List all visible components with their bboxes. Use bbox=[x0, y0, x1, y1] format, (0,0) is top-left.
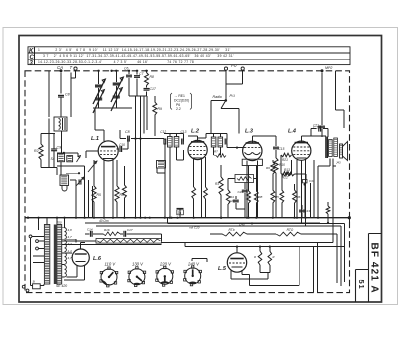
capacitor C8a bbox=[58, 93, 70, 98]
resistor R11 bbox=[247, 166, 251, 219]
transformer heater windings bbox=[62, 228, 66, 277]
transformer secondary bbox=[57, 225, 62, 285]
wire L2 pins down bbox=[192, 157, 208, 219]
resistor R12 bbox=[254, 166, 262, 219]
svg-text:C43: C43 bbox=[305, 209, 311, 213]
tube L3 bbox=[243, 129, 262, 161]
wire C8 to coil bbox=[60, 98, 62, 117]
svg-text:T: T bbox=[70, 65, 73, 70]
barretter resistor bbox=[62, 234, 161, 245]
svg-text:C40: C40 bbox=[239, 222, 245, 226]
resistor R8 bbox=[145, 71, 154, 86]
wire L5 top bbox=[236, 247, 238, 253]
terminal T2 bbox=[71, 67, 77, 78]
dial scale row1 numbers bbox=[38, 48, 231, 52]
wire L1 plate top bbox=[103, 130, 105, 141]
capacitor C15 bbox=[273, 147, 285, 158]
wire osc out bbox=[70, 180, 77, 219]
svg-text:R3: R3 bbox=[215, 182, 219, 186]
wire antenna CA down bbox=[60, 72, 62, 93]
svg-text:C9: C9 bbox=[57, 146, 62, 150]
variable capacitor C1 bbox=[93, 71, 106, 108]
svg-text:K: K bbox=[29, 49, 34, 55]
chassis dashed boundary bbox=[25, 71, 350, 293]
resistor R2 bbox=[34, 144, 57, 168]
svg-text:CA: CA bbox=[57, 65, 63, 70]
label 40ohm bbox=[99, 219, 109, 223]
capacitor C26 bbox=[238, 183, 248, 218]
resistor R4 bbox=[226, 184, 234, 218]
label C20 bbox=[189, 226, 200, 230]
svg-text:R9: R9 bbox=[266, 166, 270, 170]
resistor R16v bbox=[293, 184, 301, 219]
terminal MP2 bbox=[321, 66, 333, 72]
svg-text:DC2(D20): DC2(D20) bbox=[174, 99, 189, 103]
svg-text:Radio: Radio bbox=[213, 95, 222, 99]
wire transformer down bbox=[318, 159, 336, 218]
wire heater drops bbox=[314, 242, 318, 292]
svg-text:BF 421 A: BF 421 A bbox=[368, 243, 379, 294]
wire right verticals bbox=[305, 160, 314, 218]
resistor R9b bbox=[122, 166, 126, 219]
tube L2 bbox=[188, 129, 207, 160]
capacitor C7 bbox=[134, 71, 143, 96]
svg-text:C.19: C.19 bbox=[313, 126, 320, 130]
capacitor C17h bbox=[120, 228, 161, 237]
svg-text:PU: PU bbox=[231, 63, 237, 68]
svg-text:R8: R8 bbox=[259, 195, 263, 199]
wire transformer tops bbox=[39, 218, 65, 230]
oscillator coil S5 bbox=[60, 175, 69, 191]
svg-text:J43: J43 bbox=[336, 161, 341, 165]
tube L6 bbox=[72, 249, 102, 266]
variable capacitor C4 bbox=[111, 88, 123, 112]
output transformer bbox=[315, 136, 337, 158]
resistor R18 bbox=[326, 202, 330, 224]
svg-text:4,8: 4,8 bbox=[68, 228, 73, 232]
svg-text:C17: C17 bbox=[150, 87, 156, 91]
fuse bbox=[31, 280, 45, 289]
wire L4 pins down bbox=[296, 159, 307, 226]
bus rail B4 bbox=[96, 226, 341, 286]
svg-text:L.6: L.6 bbox=[93, 256, 102, 262]
resistor RTO bbox=[276, 228, 337, 283]
svg-text:L.5: L.5 bbox=[218, 266, 227, 272]
bus rail B7 bbox=[185, 242, 345, 247]
terminal CA bbox=[57, 65, 73, 72]
capacitor C33 bbox=[303, 174, 315, 186]
svg-text:51: 51 bbox=[357, 280, 366, 290]
svg-text:R: R bbox=[254, 255, 256, 259]
IF transformer T2 bbox=[211, 134, 227, 158]
resistor L5 cathode 2 bbox=[268, 247, 275, 273]
resistor R5 bbox=[92, 160, 101, 219]
terminal PU left bbox=[224, 63, 236, 70]
wire speaker top bbox=[335, 71, 344, 128]
svg-text:Si: Si bbox=[33, 280, 36, 284]
svg-text:R13: R13 bbox=[284, 168, 290, 172]
svg-text:R2: R2 bbox=[34, 149, 39, 153]
svg-text:mit C20: mit C20 bbox=[189, 226, 200, 230]
svg-text:SE 420: SE 420 bbox=[56, 284, 67, 288]
svg-text:C6: C6 bbox=[124, 67, 128, 71]
wire osc coils bbox=[57, 131, 80, 175]
dial scale table bbox=[28, 47, 350, 67]
svg-text:C27: C27 bbox=[229, 199, 235, 203]
wire L2 plate up bbox=[198, 134, 213, 142]
wire mains left bbox=[30, 238, 32, 285]
wire T2 to L3 bbox=[227, 143, 244, 148]
box below L3 bbox=[242, 159, 262, 165]
feedback resistor box bbox=[228, 175, 256, 185]
resistor R22 bbox=[281, 160, 292, 180]
svg-text:3 7 2' 4 5 6 9 11 12' 17-: 3 7 2' 4 5 6 9 11 12' 17-31-34-37-39-41-… bbox=[43, 54, 234, 58]
svg-text:130 V: 130 V bbox=[132, 262, 144, 267]
svg-text:L.3: L.3 bbox=[245, 129, 253, 135]
svg-text:L.2: L.2 bbox=[191, 129, 199, 135]
svg-text:C8: C8 bbox=[125, 130, 130, 134]
bus rail B6 bbox=[161, 166, 333, 242]
svg-text:RTO: RTO bbox=[287, 228, 294, 232]
bus rail B3 bbox=[85, 218, 349, 223]
svg-text:C26: C26 bbox=[238, 190, 244, 194]
capacitor C21 bbox=[311, 124, 328, 138]
wire antenna aux2 bbox=[48, 119, 50, 168]
svg-text:R5: R5 bbox=[97, 193, 101, 197]
svg-text:L.1: L.1 bbox=[91, 136, 99, 142]
terminal PU right bbox=[241, 67, 244, 70]
svg-text:1,4: 1,4 bbox=[68, 249, 73, 253]
switch radio-pu bbox=[211, 70, 243, 133]
svg-text:4,7: 4,7 bbox=[68, 235, 73, 239]
svg-text:2.2: 2.2 bbox=[176, 107, 181, 111]
variable capacitor C2 bbox=[111, 71, 124, 108]
svg-text:R: R bbox=[273, 255, 275, 259]
svg-text:3: 3 bbox=[30, 60, 34, 66]
resistor R15v bbox=[275, 184, 284, 218]
svg-text:P.U: P.U bbox=[230, 94, 236, 98]
label 700 bbox=[57, 221, 62, 225]
transformer primary bbox=[44, 225, 49, 285]
svg-text:R6: R6 bbox=[297, 195, 301, 199]
bus rail B1 bbox=[25, 216, 351, 219]
tube L5 bbox=[218, 253, 247, 272]
capacitor C9 bbox=[51, 134, 61, 168]
capacitor C6 bbox=[124, 67, 132, 97]
wire gang top dots bbox=[97, 70, 147, 72]
svg-text:C10: C10 bbox=[119, 143, 125, 147]
svg-text:240 V: 240 V bbox=[187, 262, 200, 267]
capacitor C43 bbox=[299, 205, 310, 218]
mixer coil box bbox=[157, 161, 166, 174]
loudspeaker bbox=[336, 142, 348, 165]
svg-text:14-12-23-26-30-33-28-53-0-1-2-: 14-12-23-26-30-33-28-53-0-1-2-3-4' 4 7 3… bbox=[38, 60, 194, 64]
title block sheet 51 bbox=[356, 270, 369, 303]
svg-text:R9: R9 bbox=[158, 107, 162, 111]
capacitor C17 bbox=[144, 86, 156, 97]
wire L5 loop bbox=[231, 247, 299, 286]
label SE420 bbox=[56, 284, 67, 288]
capacitor C27 bbox=[229, 196, 245, 209]
mains terminals bbox=[22, 285, 29, 292]
dial scale row2 numbers bbox=[43, 54, 234, 58]
bus rail B2 bbox=[168, 218, 345, 282]
resistor R10 bbox=[274, 158, 285, 218]
wire mixer verticals bbox=[129, 96, 147, 219]
wire gang bottom bbox=[93, 108, 132, 141]
resistor R14 bbox=[266, 160, 275, 219]
svg-text:220 V: 220 V bbox=[159, 262, 172, 267]
knob 110V bbox=[100, 262, 118, 287]
capacitor C14h bbox=[85, 228, 93, 237]
wire L3 plate up bbox=[252, 136, 276, 146]
tube L1 bbox=[91, 136, 118, 161]
drawing border frame bbox=[19, 36, 382, 303]
svg-text:110 V: 110 V bbox=[105, 262, 117, 267]
wire T1 to L2 bbox=[177, 134, 198, 161]
svg-text:1 2 3' 4 5' 6 7: 1 2 3' 4 5' 6 7 8 9 10' 11 12 13' 14-15-… bbox=[38, 48, 231, 52]
resistor L5 cathode 1 bbox=[254, 247, 262, 273]
title block BF421A bbox=[368, 234, 381, 303]
note text bbox=[171, 93, 192, 111]
svg-text:7,4: 7,4 bbox=[68, 242, 73, 246]
svg-text:2µ: 2µ bbox=[178, 211, 182, 215]
svg-text:4,7: 4,7 bbox=[68, 256, 73, 260]
bus junction dots bbox=[27, 217, 319, 219]
wire osc verticals bbox=[57, 166, 92, 218]
svg-text:R7: R7 bbox=[214, 150, 218, 154]
svg-text:R5: R5 bbox=[275, 195, 279, 199]
svg-text:C8: C8 bbox=[65, 93, 70, 97]
wire L6 pins bbox=[64, 266, 85, 281]
variable capacitor C3 bbox=[93, 90, 105, 114]
svg-text:L.4: L.4 bbox=[288, 129, 296, 135]
svg-text:R16: R16 bbox=[104, 228, 110, 232]
svg-text:R21: R21 bbox=[282, 158, 288, 162]
svg-text:C7: C7 bbox=[139, 72, 143, 76]
wire L1 cathode down bbox=[103, 160, 114, 219]
knob 220V bbox=[156, 262, 174, 287]
wire coil to R2 bbox=[41, 131, 61, 144]
trimmer arrow osc bbox=[76, 156, 84, 187]
wire T down bbox=[70, 72, 72, 117]
wire L6 top bbox=[81, 242, 85, 249]
svg-text:→ RE1: → RE1 bbox=[174, 94, 185, 98]
oscillator coil S4 bbox=[51, 152, 79, 162]
label C40 bbox=[239, 222, 253, 226]
svg-text:S4: S4 bbox=[51, 157, 55, 161]
svg-text:C17: C17 bbox=[127, 228, 133, 232]
resistor R13 bbox=[282, 168, 306, 184]
winding labels bbox=[68, 228, 73, 260]
resistor R3 bbox=[215, 165, 223, 219]
capacitor C10 bbox=[116, 139, 128, 152]
antenna coil S1 bbox=[54, 117, 67, 131]
transformer core bbox=[54, 225, 57, 285]
wire coupling C8b bbox=[120, 130, 164, 142]
wire aux down bbox=[48, 71, 50, 117]
wire MP2 down bbox=[313, 72, 325, 137]
wire L1 grid left bbox=[86, 151, 98, 172]
electrolytic 2uF bbox=[177, 209, 184, 218]
svg-text:R8: R8 bbox=[150, 75, 154, 79]
resistor R9 bbox=[153, 96, 162, 136]
wire above knob4 bbox=[192, 259, 207, 263]
dial scale row3 numbers bbox=[38, 60, 194, 64]
svg-text:R10: R10 bbox=[279, 163, 285, 167]
resistor R16h bbox=[93, 228, 120, 236]
resistor R6 bbox=[115, 160, 124, 218]
tube L4 bbox=[288, 129, 311, 161]
mains selector contacts bbox=[29, 235, 44, 263]
wire L4 plate up bbox=[301, 136, 315, 143]
svg-text:40 Ωm: 40 Ωm bbox=[99, 219, 109, 223]
wire L3 pins down bbox=[246, 161, 258, 219]
svg-text:MP2: MP2 bbox=[325, 66, 332, 70]
knob 130V bbox=[128, 262, 146, 287]
resistor R21 bbox=[281, 153, 292, 172]
knob 240V bbox=[184, 262, 202, 286]
resistor RTb bbox=[210, 228, 276, 236]
IF transformer T1 bbox=[160, 130, 186, 218]
svg-text:RTb: RTb bbox=[229, 228, 235, 232]
svg-text:C15: C15 bbox=[279, 147, 285, 151]
wire transformer taps right bbox=[65, 239, 77, 253]
svg-text:C14: C14 bbox=[87, 228, 93, 232]
